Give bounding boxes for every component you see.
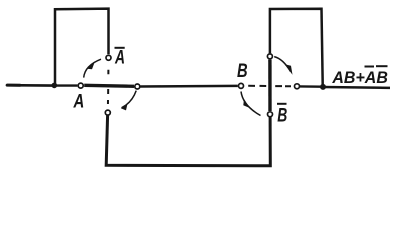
contact A-lower fixed contact: [105, 110, 110, 115]
switch B actuator dashed link: [248, 85, 291, 87]
svg-text:A: A: [114, 48, 125, 69]
arrow: blade B toward contact B-bar: [241, 92, 261, 116]
junction: output node: [320, 84, 326, 90]
overbar of label B-bar: [277, 103, 287, 105]
arrow: blade A toward contact A-lower: [121, 91, 136, 111]
wire: top-right rail from pivot B up and across down to output node: [270, 9, 323, 85]
wire: top-left rail from input node up and across to contact A-bar: [55, 9, 109, 85]
svg-text:B: B: [277, 106, 287, 127]
overbar of B in output: [376, 65, 388, 67]
contact B-bar bottom fixed contact: [268, 112, 273, 117]
wire: middle link from switch A second terminal to contact B: [140, 85, 238, 88]
contact B-right fixed contact: [295, 84, 300, 89]
switch A pivot terminal: [78, 83, 83, 88]
switch A actuator dashed link: [107, 70, 109, 104]
overbar of A in output: [365, 66, 375, 68]
wire: contact B-right to output node: [300, 85, 322, 88]
overbar of label A-bar: [115, 47, 125, 49]
wire: bottom rail from contact A-lower to contact B-bar: [106, 115, 270, 166]
junction: input node: [52, 83, 58, 89]
wire: input node to switch A pivot: [55, 84, 78, 86]
svg-text:A: A: [73, 92, 85, 113]
wire: input lead: [7, 84, 20, 87]
contact B left fixed contact: [239, 83, 244, 88]
switch B pivot terminal: [267, 54, 272, 59]
label: output AB + A-bar B-bar: [331, 66, 388, 87]
switch A movable blade: [84, 85, 134, 86]
svg-text:B: B: [237, 61, 248, 82]
svg-text:AB+AB: AB+AB: [331, 69, 388, 87]
arrow: blade B toward contact B-right: [274, 57, 292, 75]
switch A second terminal on line: [135, 84, 140, 89]
contact A-bar upper fixed contact: [106, 55, 111, 60]
arrow: blade A toward contact A-bar: [84, 59, 101, 77]
wire: output lead: [323, 86, 390, 89]
switch B movable blade: [268, 60, 272, 111]
